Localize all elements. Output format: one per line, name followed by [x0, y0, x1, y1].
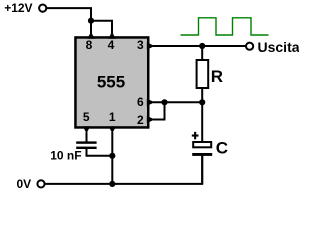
waveform output square wave — [181, 18, 269, 35]
wire R bottom to node — [201, 88, 203, 143]
terminal +12V — [39, 5, 46, 12]
svg-text:R: R — [211, 67, 223, 86]
capacitor C plus sign — [194, 132, 196, 139]
wire ground rail — [45, 155, 202, 184]
wire output junction to R top — [201, 46, 203, 60]
wire pin 5 to capacitor 10nF — [86, 132, 88, 142]
svg-text:0V: 0V — [17, 177, 32, 191]
pin 1 — [109, 126, 116, 133]
op-amp U1 555 body — [75, 37, 148, 127]
svg-text:6: 6 — [137, 95, 144, 109]
wire 10nF to pin 1 wire — [87, 149, 113, 156]
svg-text:+12V: +12V — [4, 1, 32, 15]
junction R C threshold node — [199, 99, 205, 105]
junction ground pin 1 — [109, 181, 115, 187]
svg-text:4: 4 — [108, 38, 115, 52]
svg-text:8: 8 — [86, 38, 93, 52]
wire +12V to pin 8 — [47, 8, 91, 33]
svg-text:10 nF: 10 nF — [50, 148, 81, 162]
wire pin 6 to node — [153, 101, 202, 103]
capacitor C bottom plate — [192, 153, 212, 156]
wire branch to pin 4 — [91, 21, 112, 34]
junction 10nF pin 1 — [109, 153, 115, 159]
capacitor 10nF bottom plate — [76, 147, 96, 149]
svg-text:555: 555 — [97, 73, 125, 92]
wire pin 3 to output terminal — [153, 45, 246, 47]
junction pin 6 pin 2 tie — [161, 99, 167, 105]
wire pin 1 to ground — [111, 132, 113, 184]
resistor R — [197, 60, 209, 88]
pin 6 — [147, 99, 155, 106]
wire pin 2 to tie — [153, 102, 165, 119]
capacitor 10nF top plate — [76, 141, 96, 143]
terminal Uscita — [246, 43, 253, 50]
svg-text:Uscita: Uscita — [258, 39, 300, 55]
wire C bottom to ground rail — [201, 156, 203, 184]
junction output to R — [199, 43, 205, 49]
svg-text:5: 5 — [83, 110, 90, 124]
capacitor C top plate — [193, 142, 211, 147]
pin 2 — [147, 116, 155, 123]
svg-text:2: 2 — [137, 113, 144, 127]
pin 3 — [147, 42, 155, 49]
svg-text:C: C — [216, 138, 228, 157]
svg-text:3: 3 — [137, 38, 144, 52]
pin 5 — [83, 126, 90, 133]
terminal 0V — [37, 180, 44, 187]
pin 4 — [108, 32, 115, 39]
pin 8 — [87, 32, 94, 39]
junction supply branch — [88, 18, 94, 24]
svg-text:1: 1 — [109, 110, 116, 124]
